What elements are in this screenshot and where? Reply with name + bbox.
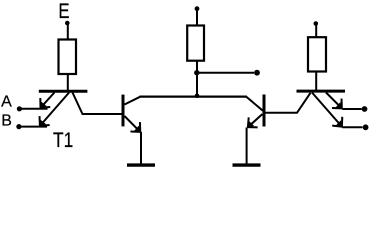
wire dot to R2	[196, 9, 198, 26]
wire R1 to T1 base bar	[67, 75, 69, 91]
node E terminal dot	[65, 21, 70, 26]
resistor R1	[59, 40, 77, 75]
resistor R2	[187, 26, 204, 61]
transistor T4 base bar	[297, 90, 346, 93]
transistor T1 emitter 1 (to A)	[41, 93, 55, 108]
wire E dot to R1	[67, 23, 69, 39]
transistor T3 base bar	[263, 95, 266, 127]
transistor T3 base wire to T4	[266, 93, 311, 113]
rail junction dot	[195, 93, 200, 98]
input A terminal dot	[17, 106, 22, 111]
junction dot under R2	[194, 70, 199, 75]
transistor T1 emitter 2 (to B)	[40, 93, 69, 126]
transistor T4 emitter 2	[312, 93, 342, 127]
transistor T1 collector wire to T2 base	[73, 93, 122, 115]
svg-text:A: A	[1, 94, 12, 111]
wire B	[19, 126, 47, 128]
wire dot to R3	[315, 24, 317, 37]
terminal dot right of R2	[254, 70, 260, 76]
ground bar under T2	[127, 163, 155, 166]
wire T4 emitter 1 to output dot	[342, 108, 361, 110]
wire R2 to rail	[196, 61, 198, 96]
svg-text:E: E	[58, 0, 69, 23]
transistor T2 emitter arrow	[125, 116, 141, 132]
supply terminal dot above R2	[195, 6, 200, 11]
ground bar under T3	[233, 163, 261, 166]
svg-text:B: B	[1, 113, 12, 130]
transistor T2 base bar	[122, 95, 125, 127]
wire junction to terminal	[197, 72, 254, 74]
transistor T3 emitter arrow	[248, 114, 263, 127]
resistor R3	[308, 37, 326, 71]
transistor T2 collector slant	[125, 97, 141, 105]
input B terminal dot	[16, 124, 21, 129]
output terminal dot 2	[363, 124, 369, 130]
output terminal dot 1	[362, 106, 368, 112]
wire T2 emitter to ground	[140, 132, 142, 164]
transistor T3 collector slant	[247, 97, 263, 111]
transistor T1 base bar	[39, 90, 88, 93]
wire R3 to T4 base bar	[315, 72, 317, 91]
wire T3 emitter to ground	[246, 128, 248, 165]
wire A	[19, 108, 47, 110]
rail wire T2 collector to T3 collector	[140, 95, 247, 97]
wire T4 emitter 2 to output dot	[342, 126, 362, 128]
supply terminal dot above R3	[314, 21, 319, 26]
transistor T4 emitter 1	[326, 93, 342, 109]
svg-text:T1: T1	[53, 128, 73, 152]
